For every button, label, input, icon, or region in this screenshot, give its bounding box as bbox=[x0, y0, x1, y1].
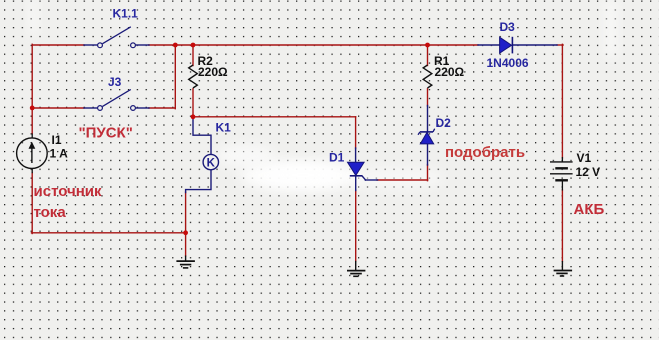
lead D1 diagonal to wire bbox=[362, 176, 366, 180]
wire battery to ground bbox=[561, 190, 563, 261]
wire D2 bottom red bbox=[427, 165, 429, 181]
wire top rail right of D3 bbox=[557, 44, 563, 46]
wire R2 top stub bbox=[192, 45, 194, 66]
svg-text:K1: K1 bbox=[216, 121, 232, 135]
lead J3 left bbox=[84, 107, 98, 109]
resistor R2 bbox=[189, 65, 198, 88]
svg-text:V1: V1 bbox=[577, 151, 592, 165]
wire K1 coil return red bbox=[185, 192, 187, 233]
svg-text:I1: I1 bbox=[52, 133, 62, 147]
svg-text:1 A: 1 A bbox=[50, 147, 69, 161]
node top rail / R2 bbox=[191, 43, 196, 48]
svg-text:D3: D3 bbox=[500, 20, 516, 34]
switch K1.1 bbox=[98, 27, 136, 48]
lead K1.1 left bbox=[84, 44, 98, 46]
wire D1 to ground bbox=[355, 190, 357, 261]
svg-text:1N4006: 1N4006 bbox=[487, 56, 529, 70]
diode D3 bbox=[500, 37, 513, 54]
resistor R1 bbox=[423, 65, 432, 88]
lead D1 top bbox=[355, 148, 357, 163]
lead D2 top bbox=[427, 106, 429, 133]
wire J3 row right bbox=[149, 107, 176, 109]
wire R1 top stub bbox=[427, 45, 429, 66]
node J3 left rail bbox=[30, 106, 35, 111]
current source I1 bbox=[17, 134, 48, 174]
wire top rail left segment bbox=[32, 44, 84, 46]
svg-text:"ПУСК": "ПУСК" bbox=[79, 125, 133, 142]
wire K1 coil bottom bbox=[186, 170, 211, 193]
node top rail / R1 bbox=[425, 43, 430, 48]
lead D3 left bbox=[478, 44, 500, 46]
lead J3 right bbox=[135, 107, 149, 109]
svg-text:D2: D2 bbox=[436, 116, 452, 130]
svg-text:220Ω: 220Ω bbox=[435, 65, 465, 79]
wire R1 bottom stub bbox=[427, 89, 429, 106]
wire vertical J3 to top rail bbox=[174, 45, 176, 109]
ground 2 (under D1) bbox=[347, 261, 365, 277]
relay coil K1 bbox=[203, 154, 218, 169]
svg-text:12 V: 12 V bbox=[576, 165, 601, 179]
svg-text:K: K bbox=[207, 157, 216, 169]
ground 1 (bottom rail) bbox=[176, 256, 195, 268]
node top rail / J3 vertical bbox=[173, 43, 178, 48]
wire R2 bottom stub bbox=[192, 89, 194, 118]
svg-text:тока: тока bbox=[34, 204, 67, 221]
wire right rail down to battery bbox=[561, 44, 563, 158]
wire left rail lower bbox=[31, 173, 33, 234]
node R2 bottom / coil bbox=[191, 114, 196, 119]
node bottom rail / ground bbox=[183, 230, 188, 235]
wire vertical down to D1 bbox=[355, 117, 357, 149]
svg-text:подобрать: подобрать bbox=[445, 144, 525, 161]
svg-text:220Ω: 220Ω bbox=[198, 65, 228, 79]
lead D1 bottom bbox=[355, 176, 357, 191]
lead D3 right bbox=[513, 44, 557, 46]
lead K1.1 right bbox=[135, 44, 149, 46]
wire J3 row left bbox=[32, 107, 84, 109]
svg-text:АКБ: АКБ bbox=[574, 201, 605, 218]
ground 3 (under battery) bbox=[554, 261, 573, 276]
junction node dots bbox=[30, 43, 430, 236]
svg-text:источник: источник bbox=[34, 183, 102, 200]
wire K1 coil from junction bbox=[193, 118, 211, 155]
wire left rail upper bbox=[31, 44, 33, 133]
svg-text:J3: J3 bbox=[108, 75, 122, 89]
wire bottom rail bbox=[32, 232, 186, 234]
battery V1 bbox=[550, 157, 573, 191]
svg-text:D1: D1 bbox=[329, 150, 345, 164]
lead D2 bottom bbox=[427, 144, 429, 165]
svg-text:K1.1: K1.1 bbox=[113, 7, 139, 21]
wire D1 to D2 bottom bbox=[377, 179, 428, 181]
wire ground 1 stub red bbox=[185, 233, 187, 256]
diode D1 bbox=[348, 162, 365, 176]
switch J3 bbox=[98, 90, 136, 111]
wire mid horizontal to D1 bbox=[193, 116, 356, 118]
diode D2 (zener) bbox=[418, 129, 435, 144]
wire top rail middle bbox=[149, 44, 478, 46]
